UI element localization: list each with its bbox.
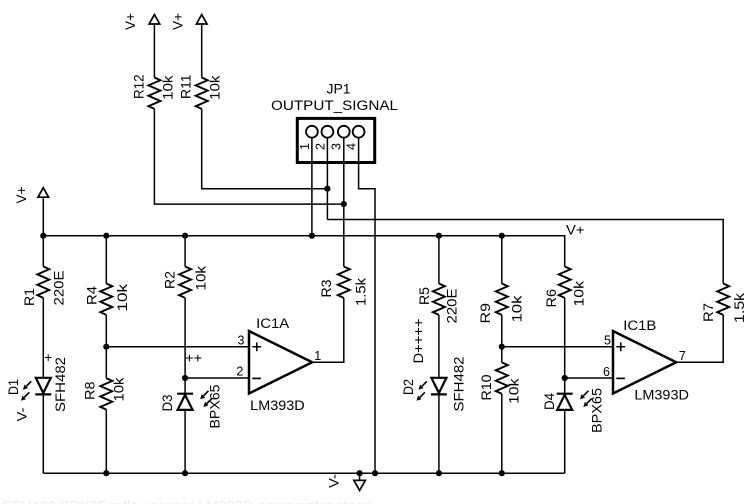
wire R8 to V- bus: [105, 410, 107, 474]
svg-text:D2: D2: [401, 379, 416, 395]
resistor R11 10k: [179, 75, 223, 109]
junction V+ bus / JP1 pin 1: [309, 233, 315, 239]
svg-text:D1: D1: [6, 379, 21, 395]
resistor R2 10k: [163, 266, 209, 298]
junction V+ bus / R2: [182, 233, 188, 239]
svg-text:SFH482: SFH482: [452, 357, 467, 412]
svg-text:IC1B: IC1B: [623, 318, 656, 333]
junction JP1 pin 2 / R11: [324, 186, 330, 192]
V- supply symbol (bottom): [327, 473, 366, 490]
svg-text:2: 2: [313, 143, 327, 150]
svg-text:220E: 220E: [52, 271, 67, 306]
JP1 pin 4 pad: [345, 126, 365, 150]
op-amp IC1A LM393D: [249, 316, 312, 413]
svg-text:220E: 220E: [445, 289, 460, 324]
svg-text:D3: D3: [160, 395, 175, 412]
resistor R4 10k: [84, 284, 130, 315]
resistor R6 10k: [544, 267, 587, 308]
junction V+ bus / R5: [436, 233, 442, 239]
resistor R8 10k: [83, 377, 127, 409]
svg-text:SFH482: SFH482: [53, 357, 68, 412]
wire R4 to R8: [105, 315, 107, 378]
svg-text:R4: R4: [84, 285, 99, 305]
LED D1 SFH482: [6, 357, 68, 412]
wire R9 to R10: [501, 315, 503, 363]
wire V+ to R12: [153, 24, 155, 78]
svg-text:R5: R5: [417, 287, 432, 305]
wire R11 to JP1 pin 2 net: [202, 109, 328, 189]
svg-text:V+: V+: [171, 13, 186, 30]
junction V- bus / R10: [499, 470, 505, 476]
svg-text:6: 6: [603, 365, 610, 379]
svg-text:R12: R12: [131, 75, 146, 100]
wire V+ bus to R1: [42, 236, 44, 267]
svg-text:R1: R1: [22, 288, 37, 306]
wire V+ arrow stem: [42, 197, 44, 236]
wire JP1 pin 2 down: [326, 138, 328, 220]
wire JP1 pin 2 net to R7: [327, 220, 723, 284]
svg-text:10k: 10k: [507, 378, 522, 404]
wire R6 to D4: [564, 298, 566, 394]
svg-text:2: 2: [236, 365, 243, 379]
wire IC1A output to R3: [312, 298, 344, 362]
op-amp IC1B LM393D: [613, 318, 689, 402]
junction R4/R8/IC1A pin 3: [103, 344, 109, 350]
svg-text:V+: V+: [14, 186, 29, 203]
connector JP1 OUTPUT_SIGNAL: [271, 82, 399, 163]
svg-text:10k: 10k: [208, 75, 223, 100]
wire IC1A pin 2 net: [185, 377, 249, 379]
wire D3 to V- bus: [184, 410, 186, 473]
svg-text:10k: 10k: [112, 377, 127, 401]
wire JP1 pin 1 to V+ bus: [311, 138, 313, 236]
wire IC1A pin 3 net: [106, 346, 249, 348]
wire IC1B pin 5 net: [502, 346, 613, 348]
svg-text:IC1A: IC1A: [256, 316, 289, 331]
junction V- bus / D3: [182, 470, 188, 476]
wire JP1 pin 3 to R3: [343, 138, 345, 267]
wire IC1B output to R7: [676, 315, 723, 362]
svg-text:10k: 10k: [194, 266, 209, 291]
wire R12 to JP1 pin 3 net: [154, 109, 343, 204]
svg-text:BPX65: BPX65: [207, 385, 222, 429]
svg-text:++: ++: [185, 351, 202, 366]
svg-text:10k: 10k: [160, 75, 175, 100]
JP1 pin 3 pad: [330, 126, 350, 150]
wire JP1 pin 4 to V- bus: [359, 138, 375, 474]
svg-text:LM393D: LM393D: [634, 388, 689, 403]
resistor R1 220E: [22, 267, 67, 307]
svg-text:BPX65: BPX65: [589, 388, 604, 433]
resistor R7 1.5k: [701, 284, 747, 324]
wire R2 to D3: [184, 298, 186, 394]
svg-text:3: 3: [330, 143, 344, 150]
svg-text:V+: V+: [123, 13, 138, 30]
resistor R9 10k: [478, 284, 525, 324]
junction R6/D4/IC1B pin 6: [562, 375, 568, 381]
svg-text:3: 3: [238, 334, 245, 348]
wire D4 to V- bus: [564, 410, 566, 473]
svg-text:1: 1: [298, 143, 312, 150]
svg-text:10k: 10k: [509, 295, 524, 322]
junction V- bus / JP1 pin 4: [372, 470, 378, 476]
wire D1 to V- bus: [42, 394, 44, 473]
JP1 pin 1 pad: [298, 126, 318, 150]
wire V+ bus to R2: [184, 236, 186, 267]
wire R10 to V- bus: [501, 394, 503, 473]
V+ supply symbol (top, for R11): [171, 13, 207, 30]
resistor R3 1.5k: [319, 267, 369, 307]
junction R2/D3/IC1A pin 2: [182, 375, 188, 381]
junction V+ bus / R1: [40, 233, 46, 239]
svg-text:R10: R10: [479, 375, 494, 401]
svg-text:7: 7: [679, 349, 686, 363]
wire D2 to V- bus: [438, 394, 440, 473]
wire V- bus: [43, 472, 564, 474]
svg-text:1.5k: 1.5k: [354, 278, 369, 306]
svg-text:R8: R8: [83, 382, 98, 401]
junction V+ bus / R9: [499, 233, 505, 239]
svg-text:R2: R2: [163, 271, 178, 289]
svg-text:R11: R11: [179, 75, 194, 100]
wire IC1B pin 6 net: [565, 377, 613, 379]
svg-text:D4: D4: [542, 393, 557, 410]
wire V+ bus: [43, 236, 564, 267]
wire R5 to D2: [438, 315, 440, 378]
wire V+ to R11: [201, 24, 203, 78]
wire V+ bus to R9: [501, 236, 503, 284]
JP1 pin 2 pad: [313, 126, 333, 150]
svg-text:V-: V-: [327, 474, 342, 488]
svg-text:JP1: JP1: [327, 82, 351, 97]
svg-text:10k: 10k: [115, 284, 130, 312]
svg-text:R9: R9: [478, 303, 493, 324]
svg-text:V+: V+: [566, 223, 585, 238]
LED D2 SFH482: [401, 357, 467, 412]
svg-text:LM393D: LM393D: [250, 398, 305, 413]
svg-text:R7: R7: [701, 303, 716, 322]
svg-text:10k: 10k: [572, 281, 587, 307]
svg-text:OUTPUT_SIGNAL: OUTPUT_SIGNAL: [271, 98, 399, 113]
photodiode D4 BPX65: [542, 388, 604, 433]
junction V+ bus / R4: [103, 233, 109, 239]
svg-text:V-: V-: [14, 408, 29, 422]
junction JP1 pin 3 / R12: [341, 201, 347, 207]
junction R9/R10/IC1B pin 5: [499, 344, 505, 350]
svg-text:R6: R6: [544, 289, 559, 308]
svg-text:R3: R3: [319, 280, 334, 298]
svg-text:+: +: [44, 350, 52, 365]
V+ supply symbol (left): [14, 186, 49, 203]
svg-text:1.5k: 1.5k: [732, 293, 747, 323]
junction V- bus / R8: [103, 470, 109, 476]
junction V- bus / D2: [436, 470, 442, 476]
svg-text:5: 5: [604, 334, 611, 348]
V+ supply symbol (top, for R12): [123, 13, 160, 30]
svg-text:4: 4: [345, 143, 359, 150]
wire V+ bus to R5: [438, 236, 440, 284]
resistor R12 10k: [131, 75, 175, 109]
svg-text:D++++: D++++: [411, 318, 426, 363]
wire V+ bus to R4: [105, 236, 107, 284]
svg-text:1: 1: [314, 349, 321, 363]
photodiode D3 BPX65: [160, 385, 223, 429]
resistor R5 220E: [417, 284, 460, 324]
junction V- bus / V- symbol: [357, 470, 363, 476]
wire R1 to D1: [42, 298, 44, 378]
resistor R10 10k: [479, 362, 522, 404]
svg-text:SFH482 BPX65 reflex sensor LM3: SFH482 BPX65 reflex sensor LM393D compar…: [2, 498, 372, 504]
